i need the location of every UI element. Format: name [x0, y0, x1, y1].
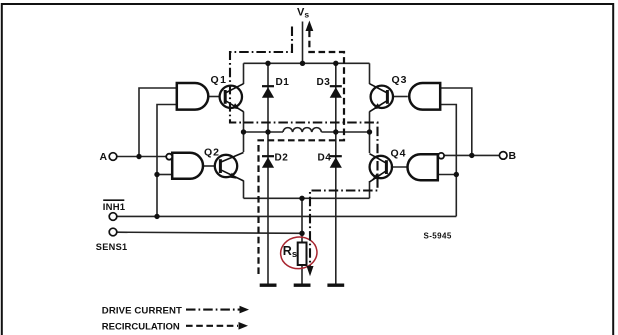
svg-text:SENS1: SENS1	[96, 242, 128, 252]
transistor Q1	[220, 84, 244, 112]
wire D1 branch	[267, 63, 269, 132]
terminal INH1	[109, 213, 117, 221]
wire A branch up to gate1 top input	[139, 88, 177, 157]
wire left leg upper (Q1 collector to rail)	[243, 63, 245, 84]
and-gate U3 driving Q3 (mirrored)	[409, 83, 440, 110]
transistor Q4 (mirrored)	[370, 154, 392, 182]
diode D2	[262, 156, 274, 168]
svg-text:Q3: Q3	[392, 74, 408, 86]
and-gate U2 driving Q2	[172, 153, 203, 179]
legend recirculation sample line	[186, 325, 238, 327]
transistor Q2	[215, 153, 244, 181]
svg-text:A: A	[100, 151, 108, 163]
inverting input bubble on U2	[166, 154, 172, 160]
wire gate2 bottom input stub	[157, 174, 173, 176]
wire gate1 bottom input from INH column	[157, 105, 177, 217]
ground left	[260, 284, 277, 287]
svg-text:Q1: Q1	[211, 74, 228, 86]
wire left leg Q2 emitter to bottom rail	[243, 181, 245, 199]
wire SENS1 horizontal	[117, 232, 302, 233]
wire mid rail left	[244, 131, 284, 133]
wire bottom rail	[244, 197, 370, 199]
svg-text:D2: D2	[275, 152, 289, 163]
drive current path (dash-dot)	[230, 27, 378, 268]
inductor load winding	[283, 128, 321, 132]
svg-text:S-5945: S-5945	[424, 231, 452, 240]
diode D4	[330, 156, 342, 168]
diode D1	[262, 86, 274, 98]
svg-text:DRIVE CURRENT: DRIVE CURRENT	[102, 305, 182, 316]
wire top rail	[244, 62, 370, 64]
svg-text:RECIRCULATION: RECIRCULATION	[102, 322, 180, 333]
svg-text:D1: D1	[276, 77, 290, 88]
legend drive current arrowhead	[240, 306, 250, 314]
wire D3 branch	[335, 63, 337, 132]
drive current arrowhead at Rs	[307, 266, 314, 276]
svg-text:B: B	[509, 150, 517, 162]
wire D2 branch to ground	[267, 132, 269, 285]
wire right leg Q4 collector from mid rail	[369, 132, 371, 153]
wire Q4 base	[391, 166, 407, 168]
resistor Rs body	[298, 243, 307, 266]
svg-text:INH1: INH1	[103, 202, 126, 213]
diode D3	[330, 86, 342, 98]
wire mid rail right	[321, 131, 369, 133]
svg-text:Q2: Q2	[204, 147, 220, 159]
wire gate4 bottom input stub	[438, 174, 457, 176]
wire right leg upper (Q3 collector to rail)	[369, 63, 371, 84]
ground middle	[294, 284, 311, 287]
terminal B	[499, 152, 507, 160]
transistor Q3 (mirrored)	[370, 84, 393, 112]
wire left leg Q2 collector from mid rail	[243, 132, 245, 152]
recirculation arrowhead into Vs	[306, 21, 314, 32]
terminal A	[109, 153, 117, 161]
wire Q1 base	[208, 96, 220, 98]
svg-text:D3: D3	[317, 77, 331, 88]
wire sense node down from bottom rail	[301, 198, 303, 242]
recirculation path (dashed)	[259, 31, 345, 275]
wire D4 branch to ground	[335, 132, 337, 285]
wire right leg Q4 emitter to bottom rail	[369, 181, 371, 198]
wire output B horizontal	[444, 154, 500, 156]
wire Q3 base	[392, 96, 408, 98]
wire input A horizontal	[117, 156, 166, 158]
and-gate U4 driving Q4 (mirrored)	[408, 154, 438, 180]
red annotation circle around Rs	[279, 235, 319, 271]
wire right leg Q3 emitter to mid rail	[369, 112, 371, 133]
node Vs supply stem	[302, 22, 304, 64]
svg-text:Q4: Q4	[391, 148, 407, 160]
ground right	[327, 284, 344, 287]
inverting input bubble on U4	[438, 153, 444, 159]
wire left leg Q1 emitter to mid rail	[243, 112, 245, 133]
legend drive current sample line	[186, 309, 240, 311]
wire INH1 horizontal	[117, 215, 457, 217]
wire Q2 base	[203, 165, 216, 167]
overline of INH1	[103, 199, 124, 201]
and-gate U1 driving Q1	[177, 83, 208, 110]
legend recirculation arrowhead	[239, 322, 249, 330]
wire Rs bottom to ground	[301, 265, 303, 285]
terminal SENS1	[109, 228, 117, 236]
svg-text:D4: D4	[318, 152, 332, 163]
wire B branch up to gate3 top input	[440, 88, 472, 155]
wire gate3 bottom input from right INH column	[440, 105, 456, 217]
